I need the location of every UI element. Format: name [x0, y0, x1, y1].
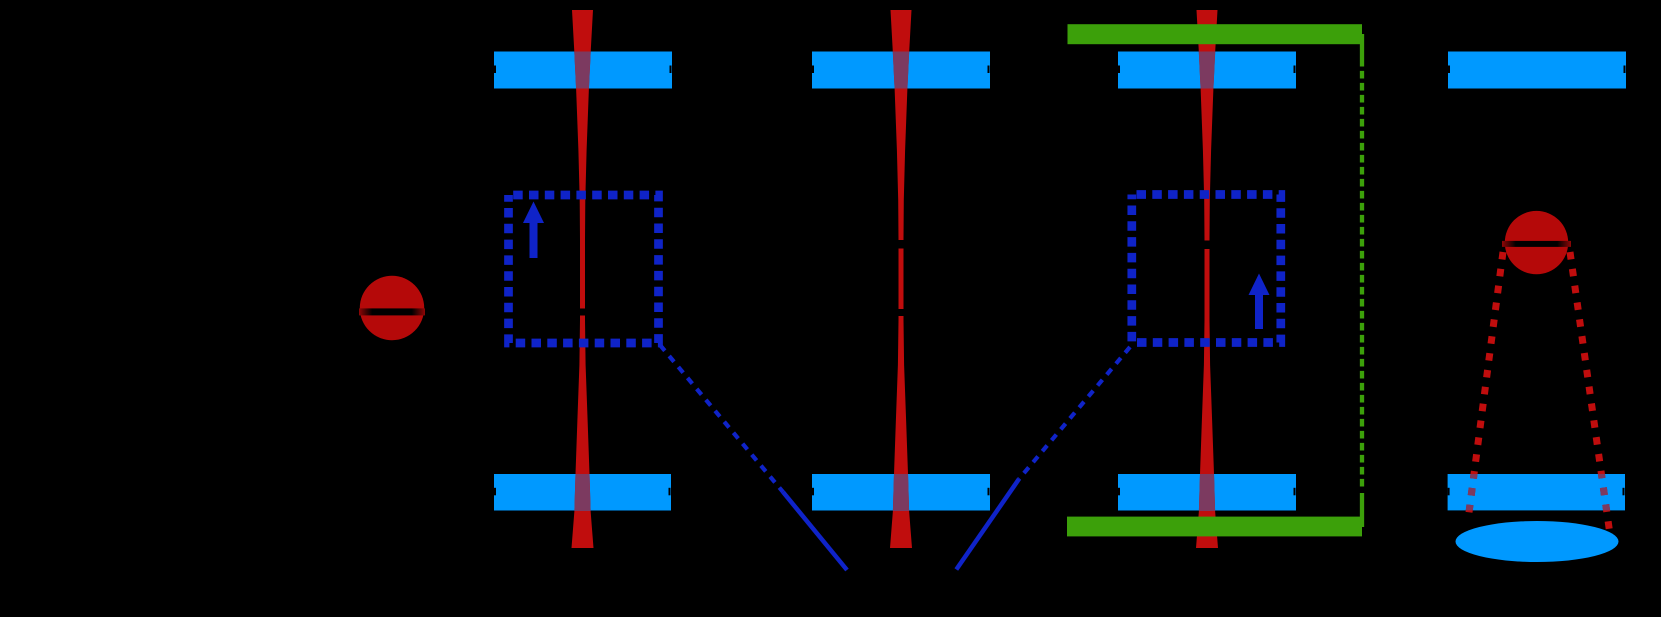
- fluorescence dotted line right col4: [1570, 252, 1610, 531]
- spin arrow col1: [523, 202, 544, 259]
- spin arrow col3: [1249, 274, 1270, 330]
- green light sheet top col3: [1068, 24, 1363, 44]
- beam-bar overlap col2 bottom: [893, 474, 909, 511]
- beam-bar overlap col3 top: [1199, 52, 1215, 89]
- zoom leader solid right: [956, 479, 1019, 570]
- zoom box col3: [1132, 195, 1281, 343]
- atom level line left: [359, 308, 425, 315]
- atom gap col1 (lower site): [578, 309, 587, 316]
- zoom leader dashed right: [1019, 347, 1130, 479]
- zoom box col1: [509, 195, 659, 343]
- beam-bar overlap col3 bottom: [1199, 474, 1215, 511]
- tweezer beam col1: [572, 10, 594, 548]
- mirror bar top col2: [812, 52, 990, 89]
- green connector dashed: [1360, 67, 1364, 491]
- atom sphere left: [360, 276, 424, 340]
- zoom leader dashed left: [660, 345, 783, 492]
- collection lens ellipse col4: [1456, 521, 1619, 562]
- fluorescence dotted line left col4: [1468, 252, 1503, 520]
- mirror bar top col4: [1448, 52, 1626, 89]
- notch marks on bar edges: [494, 66, 1626, 496]
- mirror bar bottom col3: [1118, 474, 1296, 511]
- atom gap col2 (lower site): [897, 309, 906, 316]
- atom gap col2 (upper site): [897, 240, 906, 249]
- beam-bar overlap col1 bottom: [574, 474, 590, 511]
- fluorescence dots over bar right: [1570, 252, 1610, 531]
- mirror bar top col3: [1118, 52, 1296, 89]
- green light sheet bottom col3: [1067, 517, 1362, 537]
- atom level line col4: [1502, 241, 1571, 247]
- atom gap col3 (upper site): [1203, 241, 1212, 250]
- beam-bar overlap col2 top: [893, 52, 909, 89]
- atom sphere col4: [1505, 211, 1568, 274]
- mirror bar bottom col2: [812, 474, 990, 511]
- zoom leader solid left: [783, 492, 847, 570]
- tweezer beam col2: [890, 10, 912, 548]
- fluorescence dots over bar left: [1468, 252, 1503, 520]
- mirror bar bottom col4: [1448, 474, 1625, 510]
- beam-bar overlap col1 top: [574, 52, 590, 89]
- green connector solid bottom: [1360, 493, 1364, 527]
- mirror bar top col1: [494, 52, 672, 89]
- green connector solid top: [1360, 34, 1364, 67]
- mirror bar bottom col1: [494, 474, 671, 511]
- tweezer beam col3: [1196, 10, 1218, 548]
